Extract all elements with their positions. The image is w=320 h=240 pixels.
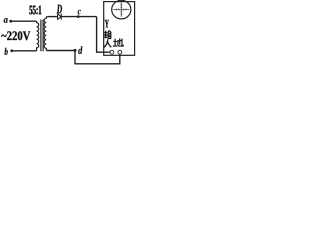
label ~220V mains: [1, 31, 30, 40]
wire down right side into scope Y input: [97, 17, 110, 53]
scope terminal Y-input: [110, 50, 114, 54]
label d: [78, 47, 82, 54]
label b: [4, 48, 7, 55]
oscilloscope box: [104, 2, 135, 56]
label a: [4, 18, 8, 23]
screen horizontal axis with ticks: [113, 9, 129, 11]
character 地 (di) hand-drawn: [113, 38, 123, 46]
node a: [9, 20, 12, 23]
transformer T secondary coil: [44, 17, 47, 51]
scope terminal ground: [118, 50, 122, 54]
wire a to transformer primary top: [11, 20, 37, 22]
diode D: [58, 14, 61, 20]
transformer core: [41, 20, 43, 52]
wire secondary top to diode: [47, 16, 57, 18]
node b: [10, 49, 13, 52]
wire b to transformer primary bottom: [12, 50, 37, 52]
wire diode to corner: [62, 16, 97, 18]
character 输 (shu) hand-drawn: [104, 31, 111, 39]
transformer T primary coil: [37, 21, 39, 51]
label Y: [105, 20, 109, 28]
label 55:1 turns ratio: [29, 6, 41, 15]
ground return wire d to scope ground terminal: [75, 50, 120, 63]
character 入 (ru) hand-drawn: [104, 39, 111, 47]
node c: [77, 15, 80, 18]
label D: [57, 5, 62, 14]
oscilloscope screen circle: [112, 0, 131, 19]
screen vertical axis: [120, 2, 122, 17]
label c: [78, 10, 81, 15]
node d: [74, 49, 77, 52]
background: [0, 0, 136, 68]
wire secondary bottom to node d: [46, 50, 75, 52]
